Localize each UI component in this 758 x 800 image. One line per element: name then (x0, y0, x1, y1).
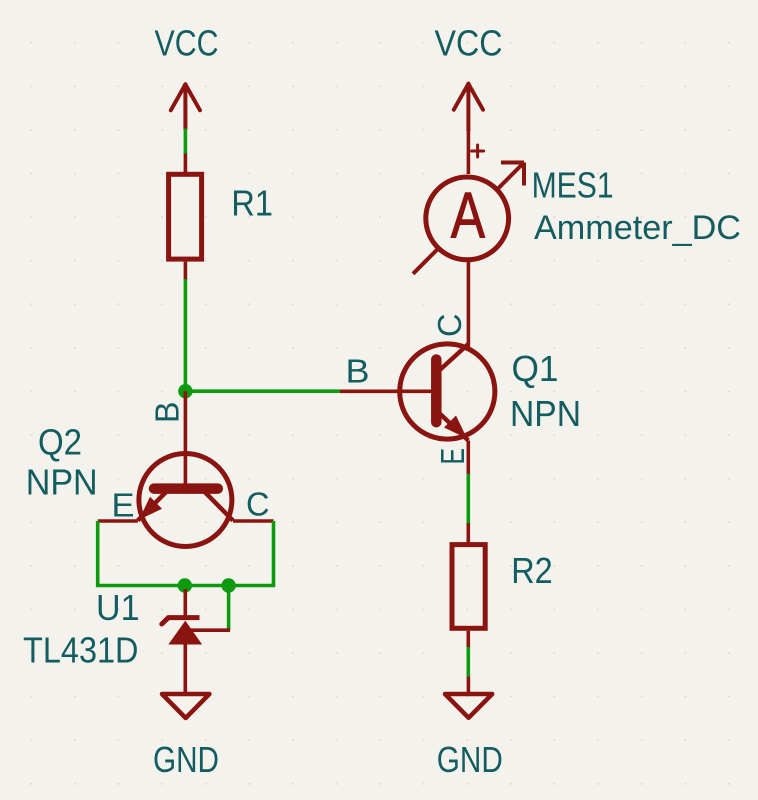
svg-text:Q2: Q2 (38, 421, 82, 462)
svg-text:TL431D: TL431D (23, 630, 139, 671)
svg-text:Q1: Q1 (512, 348, 559, 389)
resistor R1 pin bottom (184, 262, 188, 280)
wire Q1 emitter to R2 (466, 474, 470, 524)
resistor R1 body (169, 174, 202, 259)
transistor Q1 body circle (400, 344, 495, 439)
GND (right) pin (467, 677, 471, 695)
transistor Q1 emitter pin (466, 441, 470, 475)
transistor Q1 base pin (340, 389, 432, 393)
shunt regulator U1 cathode bar (168, 615, 200, 620)
shunt regulator U1 cathode pin (184, 589, 188, 617)
ammeter MES1 body circle (426, 177, 509, 260)
svg-text:A: A (451, 179, 485, 251)
resistor R2 pin top (466, 523, 470, 543)
ammeter MES1 pin + (top) (467, 129, 471, 174)
junction node B (178, 384, 192, 398)
wire junction to U1 ref pin (227, 586, 231, 631)
transistor Q2 base bar (154, 483, 218, 494)
svg-text:Ammeter_DC: Ammeter_DC (534, 209, 741, 247)
transistor Q1 emitter line (437, 411, 468, 441)
svg-text:R1: R1 (231, 183, 273, 224)
svg-text:MES1: MES1 (532, 165, 614, 206)
transistor Q2 emitter line (138, 492, 166, 521)
transistor Q2 collector line (205, 492, 233, 521)
junction dot (U1 ref) (221, 578, 235, 592)
svg-text:U1: U1 (96, 587, 140, 628)
junction dot (U1 cathode) (178, 578, 192, 592)
resistor R1 pin top (184, 154, 188, 174)
transistor Q2 emitter arrowhead (139, 497, 162, 520)
wire node B to Q1 base (185, 389, 340, 393)
transistor Q1 base bar (431, 360, 442, 423)
wire R2 to GND (right) (466, 647, 470, 677)
ammeter MES1 diagonal arrow (413, 163, 524, 274)
svg-text:GND: GND (437, 739, 503, 780)
transistor Q1 collector line (437, 344, 468, 373)
svg-text:C: C (246, 485, 270, 522)
ground symbol (right) (445, 694, 492, 718)
svg-text:E: E (434, 448, 471, 465)
ground symbol (left) (162, 694, 209, 718)
ammeter MES1 plus sign (472, 145, 484, 157)
svg-text:NPN: NPN (510, 393, 581, 434)
wire Q2 emitter loop to bottom rail (98, 521, 274, 586)
ammeter MES1 pin - (bottom) / wire to Q1 collector (467, 261, 471, 347)
svg-text:NPN: NPN (26, 462, 98, 503)
svg-text:B: B (149, 402, 186, 424)
shunt regulator U1 reference pin (188, 628, 230, 632)
power symbol VCC (right) arrow (454, 84, 483, 130)
svg-text:C: C (431, 314, 468, 338)
transistor Q2 body circle (139, 454, 232, 547)
svg-text:VCC: VCC (435, 23, 503, 64)
shunt regulator U1 anode triangle (169, 622, 201, 645)
svg-text:R2: R2 (511, 550, 553, 591)
wire VCC to R1 (184, 129, 188, 155)
shunt regulator U1 anode pin (184, 644, 188, 694)
transistor Q2 collector pin (233, 519, 274, 523)
resistor R2 body (452, 545, 485, 629)
transistor Q2 base pin (from node B) (184, 391, 188, 489)
shunt regulator U1 cathode bar tick (162, 618, 169, 624)
wire R1 to node B (184, 279, 188, 391)
svg-text:VCC: VCC (155, 23, 219, 64)
transistor Q1 emitter arrowhead (444, 416, 467, 439)
svg-text:GND: GND (153, 739, 219, 780)
svg-text:B: B (346, 353, 370, 390)
svg-text:E: E (112, 487, 135, 524)
resistor R2 pin bottom (466, 631, 470, 648)
power symbol VCC (left) arrow (171, 84, 200, 129)
transistor Q2 emitter pin (98, 519, 138, 523)
